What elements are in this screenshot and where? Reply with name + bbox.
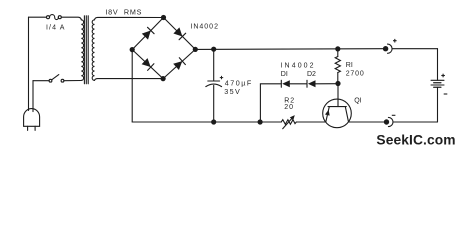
diode D2 bbox=[308, 80, 316, 87]
svg-text:SeekIC.com: SeekIC.com bbox=[376, 132, 455, 147]
svg-text:QI: QI bbox=[354, 98, 361, 105]
bridge diode CR2 (top-right arm) bbox=[173, 27, 182, 36]
wire collector to - terminal bbox=[349, 121, 387, 123]
wire between D1 and D2 bbox=[290, 83, 307, 85]
rheostat R2 zigzag bbox=[281, 120, 296, 125]
wire D1 left elbow down to bottom rail bbox=[260, 84, 281, 122]
wire secondary top to bridge top corner bbox=[95, 17, 164, 19]
transformer T1 secondary winding bbox=[92, 20, 94, 81]
transistor Q1 collector bbox=[345, 107, 348, 122]
svg-text:I8V RMS: I8V RMS bbox=[105, 7, 142, 16]
wire second conductor of line cord bbox=[32, 81, 34, 112]
wire R2 to Q1 emitter bbox=[297, 121, 326, 123]
transformer T1 primary winding bbox=[81, 20, 83, 81]
wire fuse to transformer primary top bbox=[61, 17, 81, 20]
output terminal + (tip jack) bbox=[383, 46, 388, 51]
svg-text:20: 20 bbox=[284, 104, 294, 111]
bridge diode CR1 (left-top arm) bbox=[142, 31, 151, 40]
transistor Q1 base bar bbox=[328, 106, 346, 108]
node diode-branch bottom junction bbox=[258, 119, 263, 124]
capacitor C1 top lead bbox=[213, 49, 215, 81]
wire bridge left corner down to bottom rail bbox=[131, 50, 133, 122]
fuse F1 1/4A bbox=[47, 16, 50, 19]
wire switch to transformer primary bottom bbox=[64, 80, 81, 82]
svg-text:DI: DI bbox=[281, 71, 288, 78]
label + (battery) bbox=[441, 74, 445, 78]
rheostat R2 arrow bbox=[283, 117, 293, 129]
node bridge bottom corner bbox=[161, 76, 166, 81]
capacitor C1 plates bbox=[208, 80, 220, 82]
node bridge left corner bbox=[130, 47, 135, 52]
svg-text:D2: D2 bbox=[307, 71, 316, 78]
transistor Q1 circle bbox=[323, 99, 352, 128]
svg-text:IN4002: IN4002 bbox=[281, 63, 316, 70]
wire - terminal to battery bottom bbox=[394, 121, 438, 123]
switch S1 bbox=[49, 79, 52, 82]
capacitor C1 bottom lead bbox=[213, 85, 215, 122]
transistor Q1 emitter with arrow bbox=[326, 107, 330, 122]
wire bottom rail left section bbox=[132, 121, 281, 123]
output terminal - (tip jack) bbox=[384, 119, 389, 124]
bridge diode CR3 (left-bottom arm) bbox=[142, 58, 151, 67]
label - (output terminal) bbox=[392, 114, 396, 116]
AC plug P1 bbox=[24, 109, 40, 127]
wire top AC line from plug to fuse bbox=[29, 16, 47, 18]
label + (capacitor) bbox=[220, 76, 223, 79]
wire plug to switch bbox=[33, 80, 49, 82]
transformer T1 core bbox=[83, 16, 85, 84]
bridge diode CR4 (bottom-right arm) bbox=[173, 61, 182, 70]
resistor R1 leads and zigzag bbox=[337, 49, 339, 57]
svg-text:I/4 A: I/4 A bbox=[46, 25, 66, 32]
wire left conductor down to plug bbox=[28, 17, 30, 110]
bridge rectifier arms bbox=[132, 18, 195, 79]
node R1 bottom / base junction bbox=[335, 81, 340, 86]
wire diode line D2 to junction bbox=[316, 83, 339, 85]
wire + terminal to battery top bbox=[393, 48, 438, 50]
svg-text:2700: 2700 bbox=[346, 70, 365, 77]
node bridge right corner bbox=[193, 47, 198, 52]
label - (battery) bbox=[444, 93, 448, 95]
wire secondary bottom to bridge bottom corner bbox=[95, 79, 164, 81]
wire top rail bridge to + terminal bbox=[195, 48, 385, 51]
transistor Q1 base lead bbox=[337, 84, 339, 107]
svg-text:RI: RI bbox=[346, 62, 353, 69]
battery B1 plates bbox=[431, 79, 444, 81]
node R1 top junction bbox=[335, 46, 340, 51]
node capacitor bottom junction bbox=[211, 119, 216, 124]
node bridge top corner bbox=[161, 15, 166, 20]
svg-text:IN4002: IN4002 bbox=[190, 24, 219, 31]
node capacitor top junction bbox=[211, 47, 216, 52]
svg-text:35V: 35V bbox=[224, 87, 241, 96]
diode D1 bbox=[282, 80, 290, 87]
label + (output terminal) bbox=[393, 39, 397, 43]
